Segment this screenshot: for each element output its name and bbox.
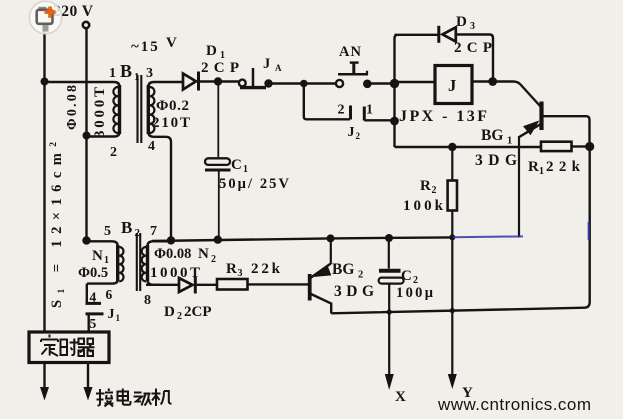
node junction left rail B1 pin1 (41, 78, 49, 86)
resistor R2 (451, 147, 453, 181)
wire bias line y147 (395, 146, 542, 148)
svg-text:3DG: 3DG (334, 283, 374, 300)
transformer B1 core (138, 75, 142, 143)
svg-text:1: 1 (134, 71, 140, 83)
svg-text:BG: BG (481, 127, 503, 144)
wire rail to relay coil (397, 81, 435, 83)
svg-text:X: X (395, 389, 406, 405)
wire middle rail vertical (393, 38, 395, 147)
svg-text:JPX - 13F: JPX - 13F (399, 108, 487, 125)
svg-text:2: 2 (211, 254, 216, 265)
wire left rail from icon to timer box (43, 28, 45, 332)
svg-text:2: 2 (135, 227, 141, 239)
svg-text:3DG: 3DG (475, 152, 517, 169)
svg-text:D: D (206, 43, 217, 59)
wire timer left output (43, 363, 45, 388)
svg-text:J: J (448, 76, 456, 95)
diode D2 (146, 284, 178, 286)
wire JA to AN (270, 82, 336, 84)
svg-text:50μ/ 25V: 50μ/ 25V (219, 176, 290, 192)
svg-text:8: 8 (144, 293, 151, 308)
transformer B1 secondary winding (147, 85, 150, 134)
capacitor C2 (388, 238, 390, 269)
wire B1 pin1 lead (45, 82, 120, 87)
svg-text:N: N (92, 248, 103, 264)
wire blue artifact horizontal (453, 235, 523, 238)
svg-text:1000T: 1000T (150, 265, 200, 281)
watermark icon square (39, 7, 47, 10)
wire J2 branch (304, 84, 350, 120)
node junction J2 rail (390, 117, 399, 126)
svg-text:J: J (108, 307, 115, 322)
node junction R2 top (448, 143, 456, 151)
svg-text:7: 7 (150, 224, 157, 239)
relay contact J1 (86, 284, 88, 303)
svg-text:S1 = 12×16cm2: S1 = 12×16cm2 (49, 142, 67, 308)
node junction X bottom rail cross (387, 309, 392, 314)
relay contact J2 (349, 106, 352, 120)
label motor chinese ji (152, 389, 172, 407)
svg-text:2: 2 (177, 311, 182, 322)
svg-text:3: 3 (238, 268, 243, 279)
svg-text:Φ0.08: Φ0.08 (65, 85, 80, 130)
svg-text:100k: 100k (403, 198, 444, 214)
node junction BG2 emitter top (327, 234, 335, 242)
svg-text:Φ0.08: Φ0.08 (154, 246, 191, 262)
transistor BG2 (308, 274, 312, 301)
node junction 220V line B1 pin2 (83, 132, 91, 140)
svg-text:J: J (348, 125, 355, 140)
label motor chinese dian (118, 389, 131, 405)
diode D3 (437, 26, 440, 43)
label motor chinese dong (134, 393, 152, 406)
node junction C2 top (385, 234, 393, 242)
wire top rail to D3 (395, 35, 439, 39)
svg-text:4: 4 (90, 290, 97, 305)
svg-text:www.cntronics.com: www.cntronics.com (437, 395, 591, 414)
svg-text:D: D (164, 304, 175, 320)
diode D1 (183, 74, 196, 90)
node 220V terminal (83, 22, 89, 28)
svg-text:22k: 22k (251, 261, 281, 277)
wire relay coil to BG1 collector (472, 82, 541, 107)
wire blue artifact right rail tick (588, 222, 590, 240)
pushbutton AN (336, 80, 343, 87)
wire 220V line down to B2 (85, 29, 87, 241)
wire BG2 base line (248, 283, 309, 285)
svg-text:5: 5 (90, 316, 97, 331)
svg-text:3: 3 (146, 66, 153, 81)
node junction B2 N1 top (82, 236, 90, 244)
wire D3 to J right junction (457, 35, 494, 79)
node junction D3 relay (488, 77, 497, 86)
wire timer right output (87, 363, 89, 388)
svg-text:1: 1 (116, 313, 121, 323)
svg-text:3000T: 3000T (92, 87, 108, 138)
output arrow right (84, 387, 93, 401)
svg-text:D: D (456, 14, 467, 30)
svg-text:3: 3 (470, 21, 475, 32)
svg-text:B: B (121, 218, 132, 237)
output X arrowhead (385, 374, 394, 390)
svg-text:5: 5 (104, 224, 111, 239)
wire right rail down (331, 147, 589, 314)
svg-text:R: R (420, 178, 431, 194)
svg-text:2: 2 (110, 145, 117, 160)
transformer B1 primary winding (118, 85, 121, 134)
svg-text:BG: BG (332, 261, 354, 278)
wire C1 branch (217, 82, 219, 158)
timer box (29, 332, 109, 363)
node junction B1 pin4 drop (167, 236, 175, 244)
wire B1 pin3 lead to D1 (148, 82, 182, 87)
relay coil J (435, 66, 472, 104)
svg-text:R: R (528, 159, 539, 175)
node junction Y bottom rail cross (450, 308, 455, 313)
watermark icon circle (29, 1, 61, 33)
svg-text:C: C (231, 157, 242, 173)
svg-text:4: 4 (148, 139, 155, 154)
label motor chinese jie (96, 389, 114, 407)
svg-text:100μ: 100μ (396, 285, 434, 301)
svg-text:1: 1 (539, 166, 544, 177)
node junction J2 branch (300, 80, 308, 88)
relay contact JA (239, 80, 246, 87)
svg-text:C: C (401, 268, 412, 284)
resistor R1 (541, 142, 572, 151)
svg-text:1: 1 (366, 103, 373, 118)
svg-text:J: J (263, 56, 270, 72)
svg-text:2CP: 2CP (201, 60, 239, 76)
svg-text:1: 1 (243, 164, 248, 175)
svg-text:V: V (166, 35, 177, 51)
wire mid horizontal rail (152, 237, 452, 241)
svg-text:Φ0.5: Φ0.5 (78, 265, 108, 281)
svg-text:R: R (226, 261, 237, 277)
svg-text:2: 2 (338, 103, 345, 118)
resistor R3 (217, 279, 248, 290)
transistor BG1 (539, 102, 543, 131)
svg-text:2: 2 (356, 131, 361, 141)
svg-text:~15: ~15 (131, 39, 160, 55)
transformer B2 N2 winding (146, 245, 149, 281)
capacitor C1 (205, 158, 230, 165)
output Y arrowhead (448, 374, 457, 389)
svg-text:2: 2 (432, 185, 437, 196)
transformer B2 core (137, 233, 140, 291)
wire AN to rail (370, 82, 395, 84)
svg-text:Φ0.2: Φ0.2 (156, 98, 189, 114)
wire B1 pin2 lead (87, 132, 120, 137)
label timer chinese shi (61, 339, 78, 356)
node junction C1 bottom (214, 236, 222, 244)
node junction R2 mid cross (449, 234, 455, 240)
svg-text:1: 1 (109, 66, 116, 81)
wire B1 pin4 lead down to B2 pin7 rail (148, 132, 171, 241)
node junction AN rail (390, 79, 399, 88)
watermark icon plus (45, 7, 56, 18)
output arrow left (40, 387, 49, 401)
svg-text:22k: 22k (546, 159, 581, 175)
label timer chinese ding (41, 335, 58, 357)
svg-text:2CP: 2CP (184, 304, 212, 320)
svg-text:B: B (120, 61, 132, 81)
node junction C1 top (214, 77, 222, 85)
svg-text:2CP: 2CP (454, 40, 492, 56)
wire D1 cathode to JA (199, 80, 239, 82)
svg-text:6: 6 (106, 287, 113, 302)
svg-text:A: A (275, 63, 282, 73)
svg-text:1: 1 (507, 136, 512, 147)
transformer B2 N1 winding (87, 241, 118, 246)
svg-text:N: N (198, 246, 209, 262)
svg-text:2: 2 (358, 270, 363, 281)
node junction R1 right rail (585, 142, 594, 151)
svg-text:210T: 210T (152, 115, 190, 131)
svg-text:AN: AN (339, 44, 362, 60)
label timer chinese qi (78, 339, 95, 357)
